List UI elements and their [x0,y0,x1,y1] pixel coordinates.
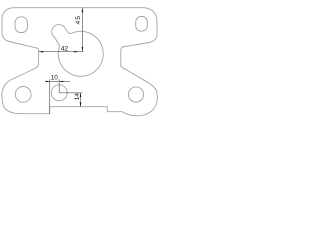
svg-text:10: 10 [51,75,59,82]
dim 42 horizontal line [39,51,84,53]
svg-text:14: 14 [74,93,81,101]
small circle horizontal centerline [59,92,82,94]
small circle vertical centerline [58,79,60,93]
dim 10 line [45,80,70,82]
dim 42 left arrow [39,51,44,53]
dim 14 vertical line [80,93,82,107]
dim 14 up arrow [80,93,82,97]
plate outline [2,8,158,116]
big boss circle with bump (union outline) [52,25,104,77]
svg-text:45: 45 [75,15,82,24]
bottom-right lobe hole [128,87,143,102]
dim 10 left extension line (plate step edge extended) [49,79,51,113]
dim 45 vertical line [81,8,83,52]
dim 45 down arrow [82,47,84,52]
dim 45 up arrow [82,8,84,13]
right ear hole [136,17,148,32]
dim 42 right arrow [74,51,79,53]
dim 10 right outside arrow [59,81,63,82]
small middle circle [51,85,67,101]
bottom-left lobe hole [15,87,31,103]
left ear hole [15,17,27,33]
dim 10 left outside arrow [46,81,50,82]
svg-text:42: 42 [61,46,69,53]
dim 14 down arrow [80,102,82,106]
